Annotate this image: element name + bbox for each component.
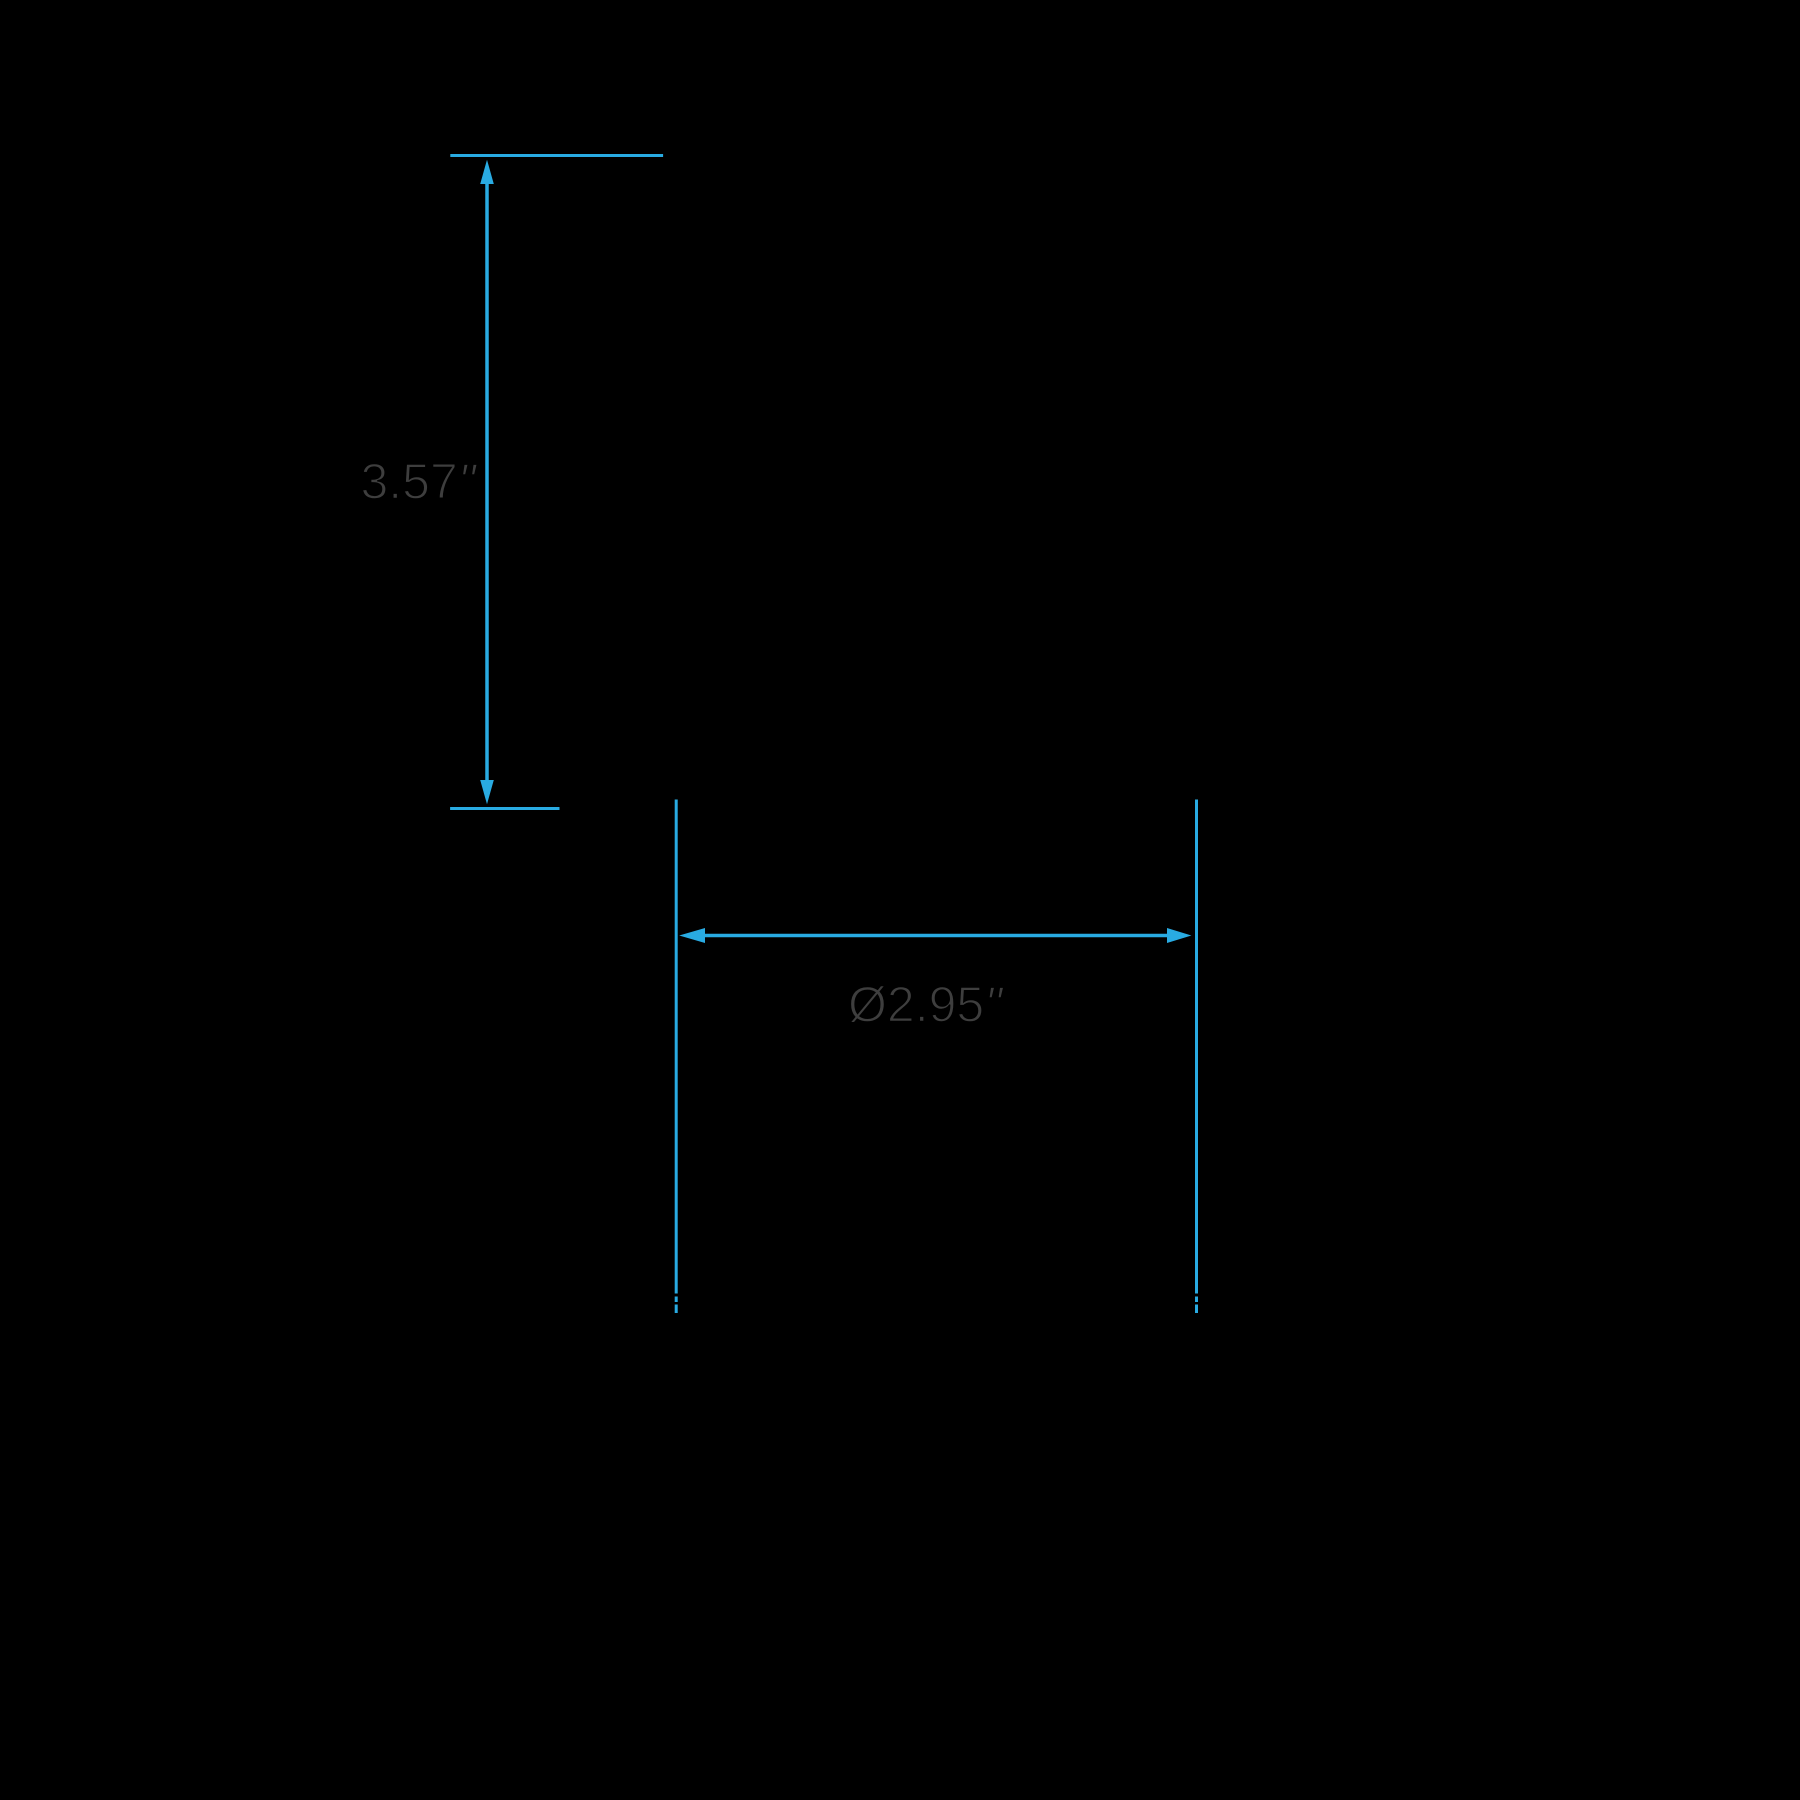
- horizontal dimension shaft 2.95: [703, 934, 1169, 938]
- extension line bottom (height dim): [450, 807, 559, 810]
- arrowhead right: [1167, 928, 1191, 943]
- left extension line (diameter dim): [675, 800, 678, 1294]
- left extension line dash 2: [675, 1305, 678, 1314]
- arrowhead up: [480, 160, 494, 184]
- svg-text:3.57": 3.57": [360, 454, 477, 510]
- arrowhead down: [480, 780, 494, 804]
- right extension line (diameter dim): [1195, 800, 1198, 1294]
- right extension line dash 2: [1195, 1305, 1198, 1314]
- right extension line dash 1: [1195, 1297, 1198, 1303]
- svg-text:Ø2.95": Ø2.95": [848, 977, 1004, 1033]
- extension line top (height dim): [450, 154, 663, 157]
- arrowhead left: [679, 928, 705, 943]
- vertical dimension shaft 3.57: [485, 182, 489, 782]
- left extension line dash 1: [675, 1297, 678, 1303]
